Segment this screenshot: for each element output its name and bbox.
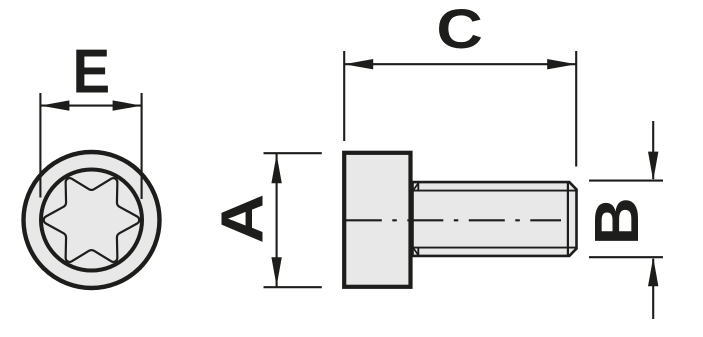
svg-text:A: A [209, 194, 276, 244]
svg-text:C: C [436, 0, 482, 60]
svg-text:E: E [73, 36, 111, 106]
svg-text:B: B [582, 197, 651, 245]
